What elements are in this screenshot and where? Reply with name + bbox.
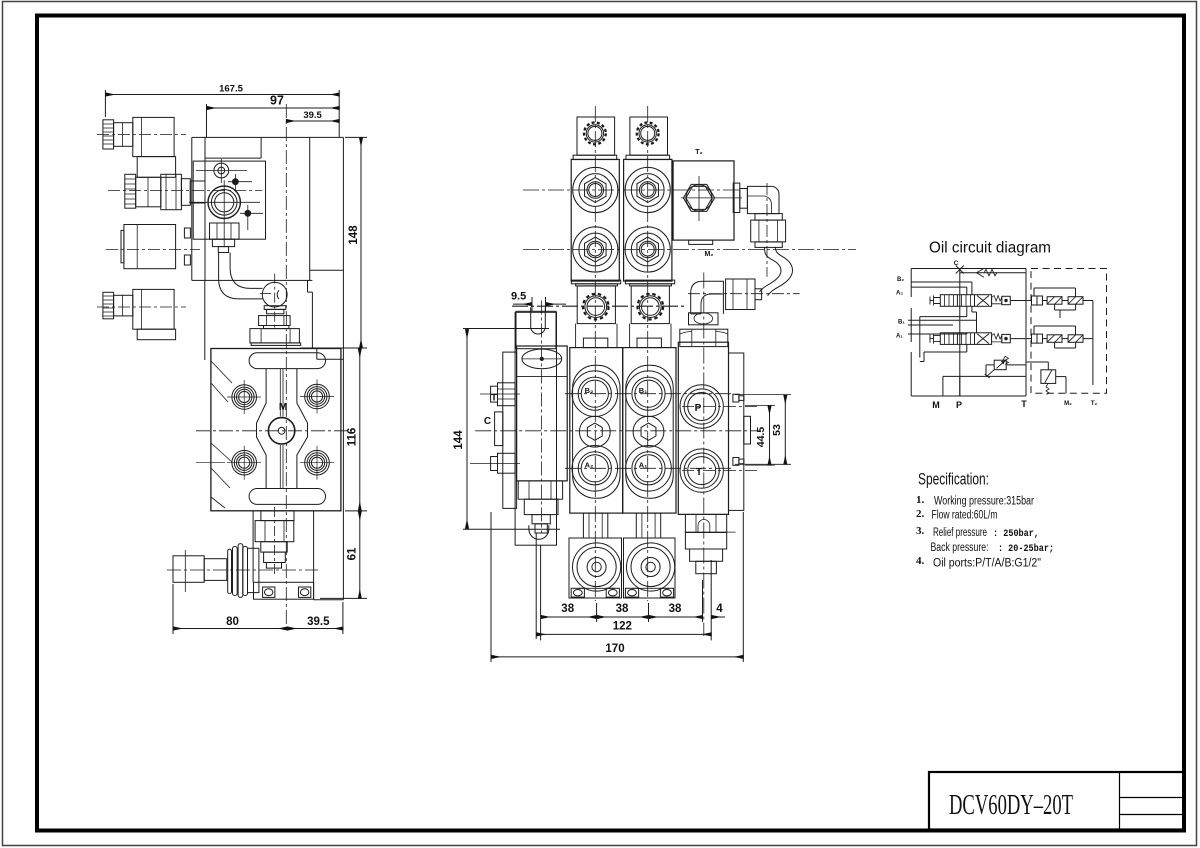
S2 top tab — [626, 117, 670, 160]
inlet tip — [535, 524, 547, 533]
dim 97 — [207, 94, 340, 138]
inlet vertical centerline — [540, 301, 542, 534]
svg-text:Oil ports:P/T/A/B:G1/2": Oil ports:P/T/A/B:G1/2" — [933, 558, 1041, 570]
S2 port A — [625, 227, 670, 272]
right bolt tick T level — [733, 458, 744, 466]
inlet left strip — [503, 352, 517, 508]
svg-text:148: 148 — [348, 225, 360, 245]
elbow vertical centerline — [766, 183, 768, 277]
main centerline — [285, 104, 287, 629]
elbow top right — [747, 186, 779, 213]
relief stack centerline — [274, 507, 276, 574]
S1 port A2 — [572, 446, 618, 492]
cap S2 feet — [625, 588, 673, 597]
handle bellows — [228, 544, 248, 598]
base plate — [254, 582, 314, 599]
svg-text:4.: 4. — [916, 555, 925, 567]
relief neck — [261, 511, 294, 521]
svg-text:53: 53 — [771, 424, 783, 436]
main block outline — [192, 137, 310, 360]
svg-text:B₂: B₂ — [897, 277, 904, 283]
body horizontal centerline — [196, 430, 352, 432]
S2 bottom neck — [636, 513, 660, 538]
svg-text:Oil circuit diagram: Oil circuit diagram — [929, 240, 1051, 257]
S1 bonnet tower — [571, 280, 620, 347]
svg-text:B₁: B₁ — [639, 386, 648, 395]
bottom solenoid coil — [137, 329, 175, 340]
svg-text:38: 38 — [616, 603, 629, 615]
body left casting lines — [211, 361, 232, 508]
svg-text:Back pressure:: Back pressure: — [931, 542, 989, 554]
relief nut — [261, 542, 287, 552]
S3 port P — [680, 385, 723, 428]
banjo bolt hex — [210, 223, 240, 239]
handle retainer — [248, 548, 259, 592]
pilot dot 1 — [228, 174, 252, 190]
bottom-left bolt centerline ext — [196, 462, 225, 464]
top solenoid connector knurl — [103, 120, 114, 149]
valve1 pilot loop — [920, 306, 977, 357]
body spool bore lines — [280, 369, 283, 489]
svg-text:2.: 2. — [916, 508, 925, 520]
top solenoid centerline — [97, 134, 186, 136]
cap S1 feet — [571, 588, 619, 597]
C throttle symbol — [956, 266, 964, 274]
svg-text:A₁: A₁ — [639, 461, 648, 470]
C recess — [495, 412, 503, 446]
svg-text:: 20-25bar;: : 20-25bar; — [998, 543, 1054, 555]
svg-text:167.5: 167.5 — [219, 84, 243, 95]
lower port fitting — [470, 453, 520, 473]
S1 body — [571, 159, 619, 281]
inlet bottom hex — [518, 481, 562, 499]
bolt boss bottom-left — [227, 446, 261, 480]
dim 116 — [345, 348, 367, 511]
pilot small screw — [196, 159, 247, 183]
title text — [949, 789, 1073, 821]
S1 top tab — [573, 117, 617, 160]
S2 bottom rosette — [638, 294, 664, 320]
svg-text:Relief pressure: Relief pressure — [933, 527, 987, 539]
middle coil — [124, 225, 176, 269]
T port fitting — [480, 383, 520, 406]
end block bottom tab — [689, 240, 713, 244]
svg-text:M: M — [932, 400, 940, 410]
bolt boss top-left — [227, 380, 261, 414]
right bolt tick P level — [733, 394, 744, 402]
bolt boss top-right — [300, 380, 334, 414]
S1 boss stadium — [573, 365, 620, 498]
A1 port line — [908, 333, 967, 334]
pilot head block — [193, 161, 265, 239]
pilot dot 2 — [240, 205, 263, 230]
svg-text:44.5: 44.5 — [755, 427, 767, 448]
middle coil cap — [121, 230, 124, 262]
S1 bottom neck — [583, 513, 607, 538]
global horizontal centerline lower ports — [523, 249, 856, 251]
S3 wide hex — [680, 329, 728, 346]
middle coil tabs — [184, 228, 190, 265]
S2 port B1 — [626, 371, 672, 417]
svg-text:Flow rated:60L/m: Flow rated:60L/m — [932, 510, 998, 522]
pipe down — [219, 253, 263, 299]
bolt boss bottom-right — [300, 446, 334, 480]
S2 body — [624, 159, 672, 281]
dim 61 — [320, 511, 367, 599]
svg-text:T₂: T₂ — [1091, 401, 1098, 407]
dim 167.5 — [105, 84, 339, 138]
body bottom stadium — [249, 489, 325, 505]
S1 mid hex — [579, 416, 610, 447]
P centerline — [682, 406, 758, 408]
svg-text:B₂: B₂ — [585, 386, 594, 395]
horizontal fitting — [726, 279, 762, 310]
right mounting plate — [308, 137, 344, 599]
center M circle — [268, 402, 294, 444]
inlet cover top view block — [516, 307, 556, 348]
dim 148 — [300, 137, 367, 348]
T centerline — [682, 470, 758, 472]
svg-text:Specification:: Specification: — [918, 471, 989, 489]
S3 bottom stack — [685, 514, 735, 573]
inlet ellipse boss — [522, 349, 562, 369]
inlet main block — [517, 346, 568, 481]
svg-text:C: C — [484, 416, 491, 427]
svg-text:122: 122 — [613, 621, 632, 633]
svg-text:P: P — [956, 400, 962, 410]
banjo stub right of end block — [733, 183, 747, 212]
dim 39.5 top — [286, 110, 339, 121]
right vertical collector — [1060, 301, 1093, 386]
cartridge centerline — [108, 190, 262, 192]
elbow collar — [264, 306, 286, 314]
top solenoid coil — [137, 157, 175, 178]
right cluster 1 — [1027, 288, 1093, 310]
cartridge valve body — [136, 177, 161, 207]
S3 port T — [680, 449, 723, 492]
inlet top band line — [517, 376, 568, 378]
svg-text:38: 38 — [561, 603, 574, 615]
S1 top rosette — [584, 122, 606, 144]
svg-text:38: 38 — [669, 603, 682, 615]
section3 vertical centerline — [703, 273, 705, 637]
banjo bolt stem — [218, 247, 228, 253]
body web contour — [257, 369, 308, 489]
B2 port line — [911, 282, 972, 295]
inlet U hook — [529, 525, 549, 539]
S2 mid hex — [633, 416, 664, 447]
global horizontal centerline upper ports — [523, 189, 742, 191]
dim 144 — [453, 329, 560, 530]
inlet fitting small — [532, 515, 550, 524]
svg-text:T₂: T₂ — [695, 149, 702, 156]
fitting centerline — [688, 293, 800, 295]
valve2 pilot loop — [920, 344, 967, 361]
bottom solenoid centerline — [97, 306, 186, 308]
right cluster 2 — [1027, 326, 1093, 348]
handle shaft — [204, 559, 227, 581]
B-row centerline — [565, 393, 734, 395]
global horizontal centerline — [475, 430, 760, 432]
bonnet row centerline — [512, 305, 684, 307]
body top stadium — [249, 353, 325, 369]
dim row 38s — [541, 545, 725, 640]
S1 bottom rosette — [583, 294, 609, 320]
right dashed box — [1031, 269, 1107, 394]
S2 body — [623, 348, 676, 513]
A2 port line — [911, 287, 967, 295]
S2 bonnet tower — [625, 280, 674, 347]
svg-text:9.5: 9.5 — [511, 291, 526, 303]
S1 port B — [573, 167, 618, 212]
dim 80 — [173, 584, 287, 634]
S1 port A — [573, 227, 618, 272]
bottom solenoid knurl — [103, 292, 114, 319]
S3 body — [678, 342, 728, 514]
relief tip — [266, 563, 281, 569]
A-row centerline — [565, 467, 734, 469]
svg-text:B₁: B₁ — [898, 320, 905, 326]
S2 top rosette — [637, 122, 659, 144]
svg-text:A₁: A₁ — [896, 334, 903, 340]
svg-text:39.5: 39.5 — [303, 110, 322, 121]
dim 122 — [536, 533, 711, 639]
S1 cap top — [583, 338, 607, 348]
right relief valve — [1026, 362, 1066, 394]
svg-text:4: 4 — [716, 603, 723, 615]
DCV valve 2 — [930, 333, 1027, 345]
pilot main port circle — [189, 180, 260, 247]
S1 port B2 — [572, 371, 618, 417]
P main vertical line — [959, 270, 961, 397]
handle centerline — [167, 569, 318, 571]
cartridge collar — [181, 179, 190, 206]
left boundary box — [911, 269, 1026, 397]
svg-text:DCV60DY–20T: DCV60DY–20T — [949, 789, 1073, 821]
9.5 dim — [511, 291, 566, 312]
lower elbow into S3 — [691, 281, 724, 314]
right side tab — [744, 416, 751, 444]
bottom cap S2 — [624, 538, 676, 598]
svg-text:T: T — [1021, 399, 1027, 409]
svg-text:A₂: A₂ — [585, 461, 594, 470]
svg-text:P: P — [695, 403, 702, 414]
svg-text:170: 170 — [605, 643, 624, 655]
valve body — [211, 349, 341, 511]
bottom cap S1 — [569, 538, 622, 598]
pedestal under body — [253, 511, 314, 599]
S2 port A1 — [626, 446, 672, 492]
svg-text:80: 80 — [226, 616, 239, 628]
top solenoid plug — [114, 123, 133, 147]
cartridge hex nut — [161, 174, 182, 209]
dim 44.5 — [745, 405, 775, 465]
svg-text:39.5: 39.5 — [307, 616, 330, 628]
bottom solenoid plug — [114, 295, 133, 316]
top check valve with spring — [960, 268, 1026, 277]
section2 vertical centerline — [647, 106, 649, 601]
DCV valve 1 — [930, 295, 1027, 307]
S2 boss stadium — [626, 365, 673, 498]
stack hex small — [259, 316, 291, 329]
inlet hex 2 — [524, 499, 558, 514]
middle coil centerline — [106, 249, 200, 251]
svg-text:M₂: M₂ — [705, 251, 714, 258]
handle knob — [173, 550, 204, 592]
svg-text:61: 61 — [347, 547, 359, 560]
S2 cap top — [637, 338, 661, 348]
svg-text:Working pressure:315bar: Working pressure:315bar — [934, 496, 1034, 508]
relief hex — [255, 521, 294, 542]
title block frame — [929, 772, 1184, 830]
top solenoid housing — [133, 117, 174, 156]
svg-text:1.: 1. — [916, 494, 925, 506]
svg-text:116: 116 — [347, 428, 359, 447]
B1 port line — [908, 320, 977, 333]
banjo elbow circle — [260, 274, 287, 330]
S3 top hex nut — [689, 313, 719, 325]
svg-text:: 250bar,: : 250bar, — [993, 528, 1039, 540]
specification text — [916, 471, 1054, 570]
cartridge valve knurl — [125, 174, 136, 208]
bottom solenoid housing — [133, 289, 174, 329]
elbow vertical nut — [751, 214, 786, 248]
banjo bolt collar — [212, 239, 234, 246]
section1 vertical centerline — [594, 106, 596, 601]
stack hex big — [250, 329, 301, 346]
end block hex plug — [681, 176, 742, 221]
svg-text:T: T — [696, 467, 702, 478]
cartridge thread — [190, 181, 205, 203]
svg-text:A₂: A₂ — [896, 291, 903, 297]
inlet tall plate — [515, 312, 556, 545]
svg-text:T: T — [491, 393, 497, 404]
S-curve tube — [760, 247, 793, 295]
relief lower — [264, 552, 286, 562]
svg-text:144: 144 — [453, 430, 465, 450]
S1 body — [570, 348, 623, 513]
S2 port B — [625, 167, 670, 212]
relief valve — [985, 356, 1026, 378]
svg-text:97: 97 — [270, 94, 284, 108]
dim 170 — [491, 512, 743, 662]
dim 39.5 bottom — [287, 602, 343, 634]
svg-text:M: M — [279, 402, 287, 413]
svg-text:M₂: M₂ — [1064, 401, 1072, 407]
svg-text:3.: 3. — [916, 525, 925, 537]
bottom collector line — [943, 376, 1026, 396]
S3 rear plate — [729, 353, 744, 510]
end block — [673, 161, 734, 240]
dim 53 — [735, 395, 791, 465]
